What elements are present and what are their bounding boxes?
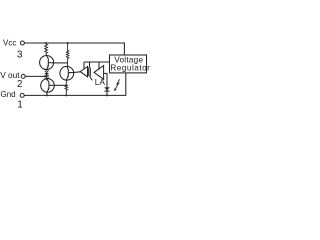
amplifier A2 (triangle) xyxy=(94,66,104,80)
wire Q2 base to R4 node xyxy=(54,84,66,86)
node junction Vout/D1 xyxy=(46,75,48,77)
light arrow (lightning) into photodiode xyxy=(114,79,120,91)
resistor R2 xyxy=(66,43,68,67)
svg-text:3: 3 xyxy=(17,50,23,61)
diode D1 (between Q1 emitter and Vout node) xyxy=(44,70,49,76)
wire ground rail xyxy=(24,73,126,95)
wire amp output to Q3 base xyxy=(74,71,81,74)
transistor Q1 xyxy=(40,56,54,70)
node junction R1/rail xyxy=(45,42,47,44)
wire supply line y62 from A1/A2 tops to regulator box xyxy=(84,61,110,63)
node junction photodiode/gnd xyxy=(106,94,108,96)
wire drop to A2 top xyxy=(98,62,100,70)
voltage regulator box U1 xyxy=(110,55,147,73)
node junction Q2 base / R4 xyxy=(65,84,67,86)
svg-text:Gnd: Gnd xyxy=(1,90,16,99)
svg-text:1: 1 xyxy=(17,100,23,111)
node junction R2/rail xyxy=(67,42,69,44)
transistor Q2 (emitter arrow at top) xyxy=(41,77,55,96)
svg-text:LA: LA xyxy=(95,77,106,87)
svg-text:Regulator: Regulator xyxy=(110,64,150,73)
amplifier A1 (triangle with reference bars) xyxy=(80,67,92,81)
terminal pin 3 (Vcc) xyxy=(20,41,24,45)
wire A2 to photodiode xyxy=(104,73,107,95)
transistor Q3 xyxy=(60,66,74,80)
wire Q1 base to R2 node xyxy=(54,62,68,64)
wire Vcc top rail xyxy=(25,43,125,55)
svg-text:2: 2 xyxy=(17,79,23,90)
node junction Q2/gnd xyxy=(46,94,48,96)
svg-text:Vcc: Vcc xyxy=(3,39,16,48)
terminal pin 1 (Gnd) xyxy=(20,93,24,97)
terminal pin 2 (V out) xyxy=(21,74,25,78)
node junction R4/gnd xyxy=(65,94,67,96)
wire drop to A1 top xyxy=(83,62,85,69)
wire drop to reference bars xyxy=(89,62,91,67)
photodiode D2 xyxy=(104,87,109,91)
resistor R1 xyxy=(45,43,48,55)
resistor R4 (Q3 emitter to ground) xyxy=(65,80,67,96)
wire V out xyxy=(25,75,46,77)
